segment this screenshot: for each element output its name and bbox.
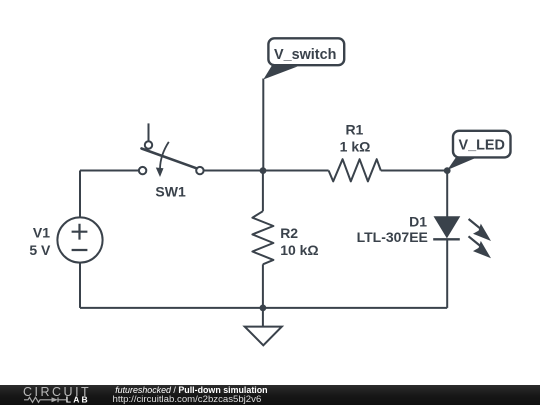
wire V1 top vertical (79, 171, 81, 218)
svg-text:D1: D1 (409, 214, 427, 230)
label V1 (33, 224, 50, 240)
wire R1 to node V_LED (381, 170, 447, 172)
label D1 (409, 214, 427, 230)
svg-text:LAB: LAB (66, 395, 90, 405)
svg-text:R1: R1 (345, 121, 363, 137)
value LTL-307EE (357, 229, 428, 245)
switch SW1 (139, 123, 204, 177)
wire ground stub (262, 308, 264, 327)
wire V1 bottom vertical (79, 263, 81, 308)
LED D1 (433, 217, 491, 258)
value 5 V (29, 242, 51, 258)
wire node down to R2 (262, 171, 264, 212)
wire D1 cathode down (446, 239, 448, 308)
node flag V_LED (447, 131, 510, 170)
wire node V_switch to R1 (263, 170, 329, 172)
node V_LED junction dot (444, 167, 451, 174)
wire V_switch flag down to node (262, 79, 264, 171)
wire bottom rail (80, 307, 447, 309)
value 1 kOhm (340, 139, 371, 155)
label R1 (345, 121, 363, 137)
svg-text:5 V: 5 V (29, 242, 51, 258)
wire top-left horizontal to SW1 (80, 170, 139, 172)
value 10 kOhm (280, 242, 318, 258)
svg-text:V_LED: V_LED (459, 138, 505, 154)
wire R2 bottom to ground node (262, 264, 264, 308)
ground node junction dot (260, 305, 267, 312)
svg-text:R2: R2 (280, 225, 298, 241)
svg-text:V_switch: V_switch (274, 47, 336, 63)
footer credit text (115, 385, 267, 395)
node V_switch junction dot (260, 167, 267, 174)
footer url text (113, 394, 262, 405)
svg-text:10 kΩ: 10 kΩ (280, 242, 318, 258)
node flag V_switch (263, 38, 344, 79)
svg-text:V1: V1 (33, 224, 50, 240)
wire node V_LED down to D1 anode (446, 171, 448, 218)
svg-text:1 kΩ: 1 kΩ (340, 139, 371, 155)
wire SW1 right terminal to node V_switch (204, 170, 263, 172)
resistor R1 (329, 159, 381, 181)
resistor R2 (252, 211, 273, 264)
footer bar (0, 385, 540, 405)
label R2 (280, 225, 298, 241)
ground (245, 327, 282, 346)
svg-text:SW1: SW1 (155, 183, 186, 199)
voltage source V1 (57, 217, 102, 262)
CircuitLab logo (0, 384, 110, 405)
label SW1 (155, 183, 186, 199)
svg-text:LTL-307EE: LTL-307EE (357, 229, 428, 245)
